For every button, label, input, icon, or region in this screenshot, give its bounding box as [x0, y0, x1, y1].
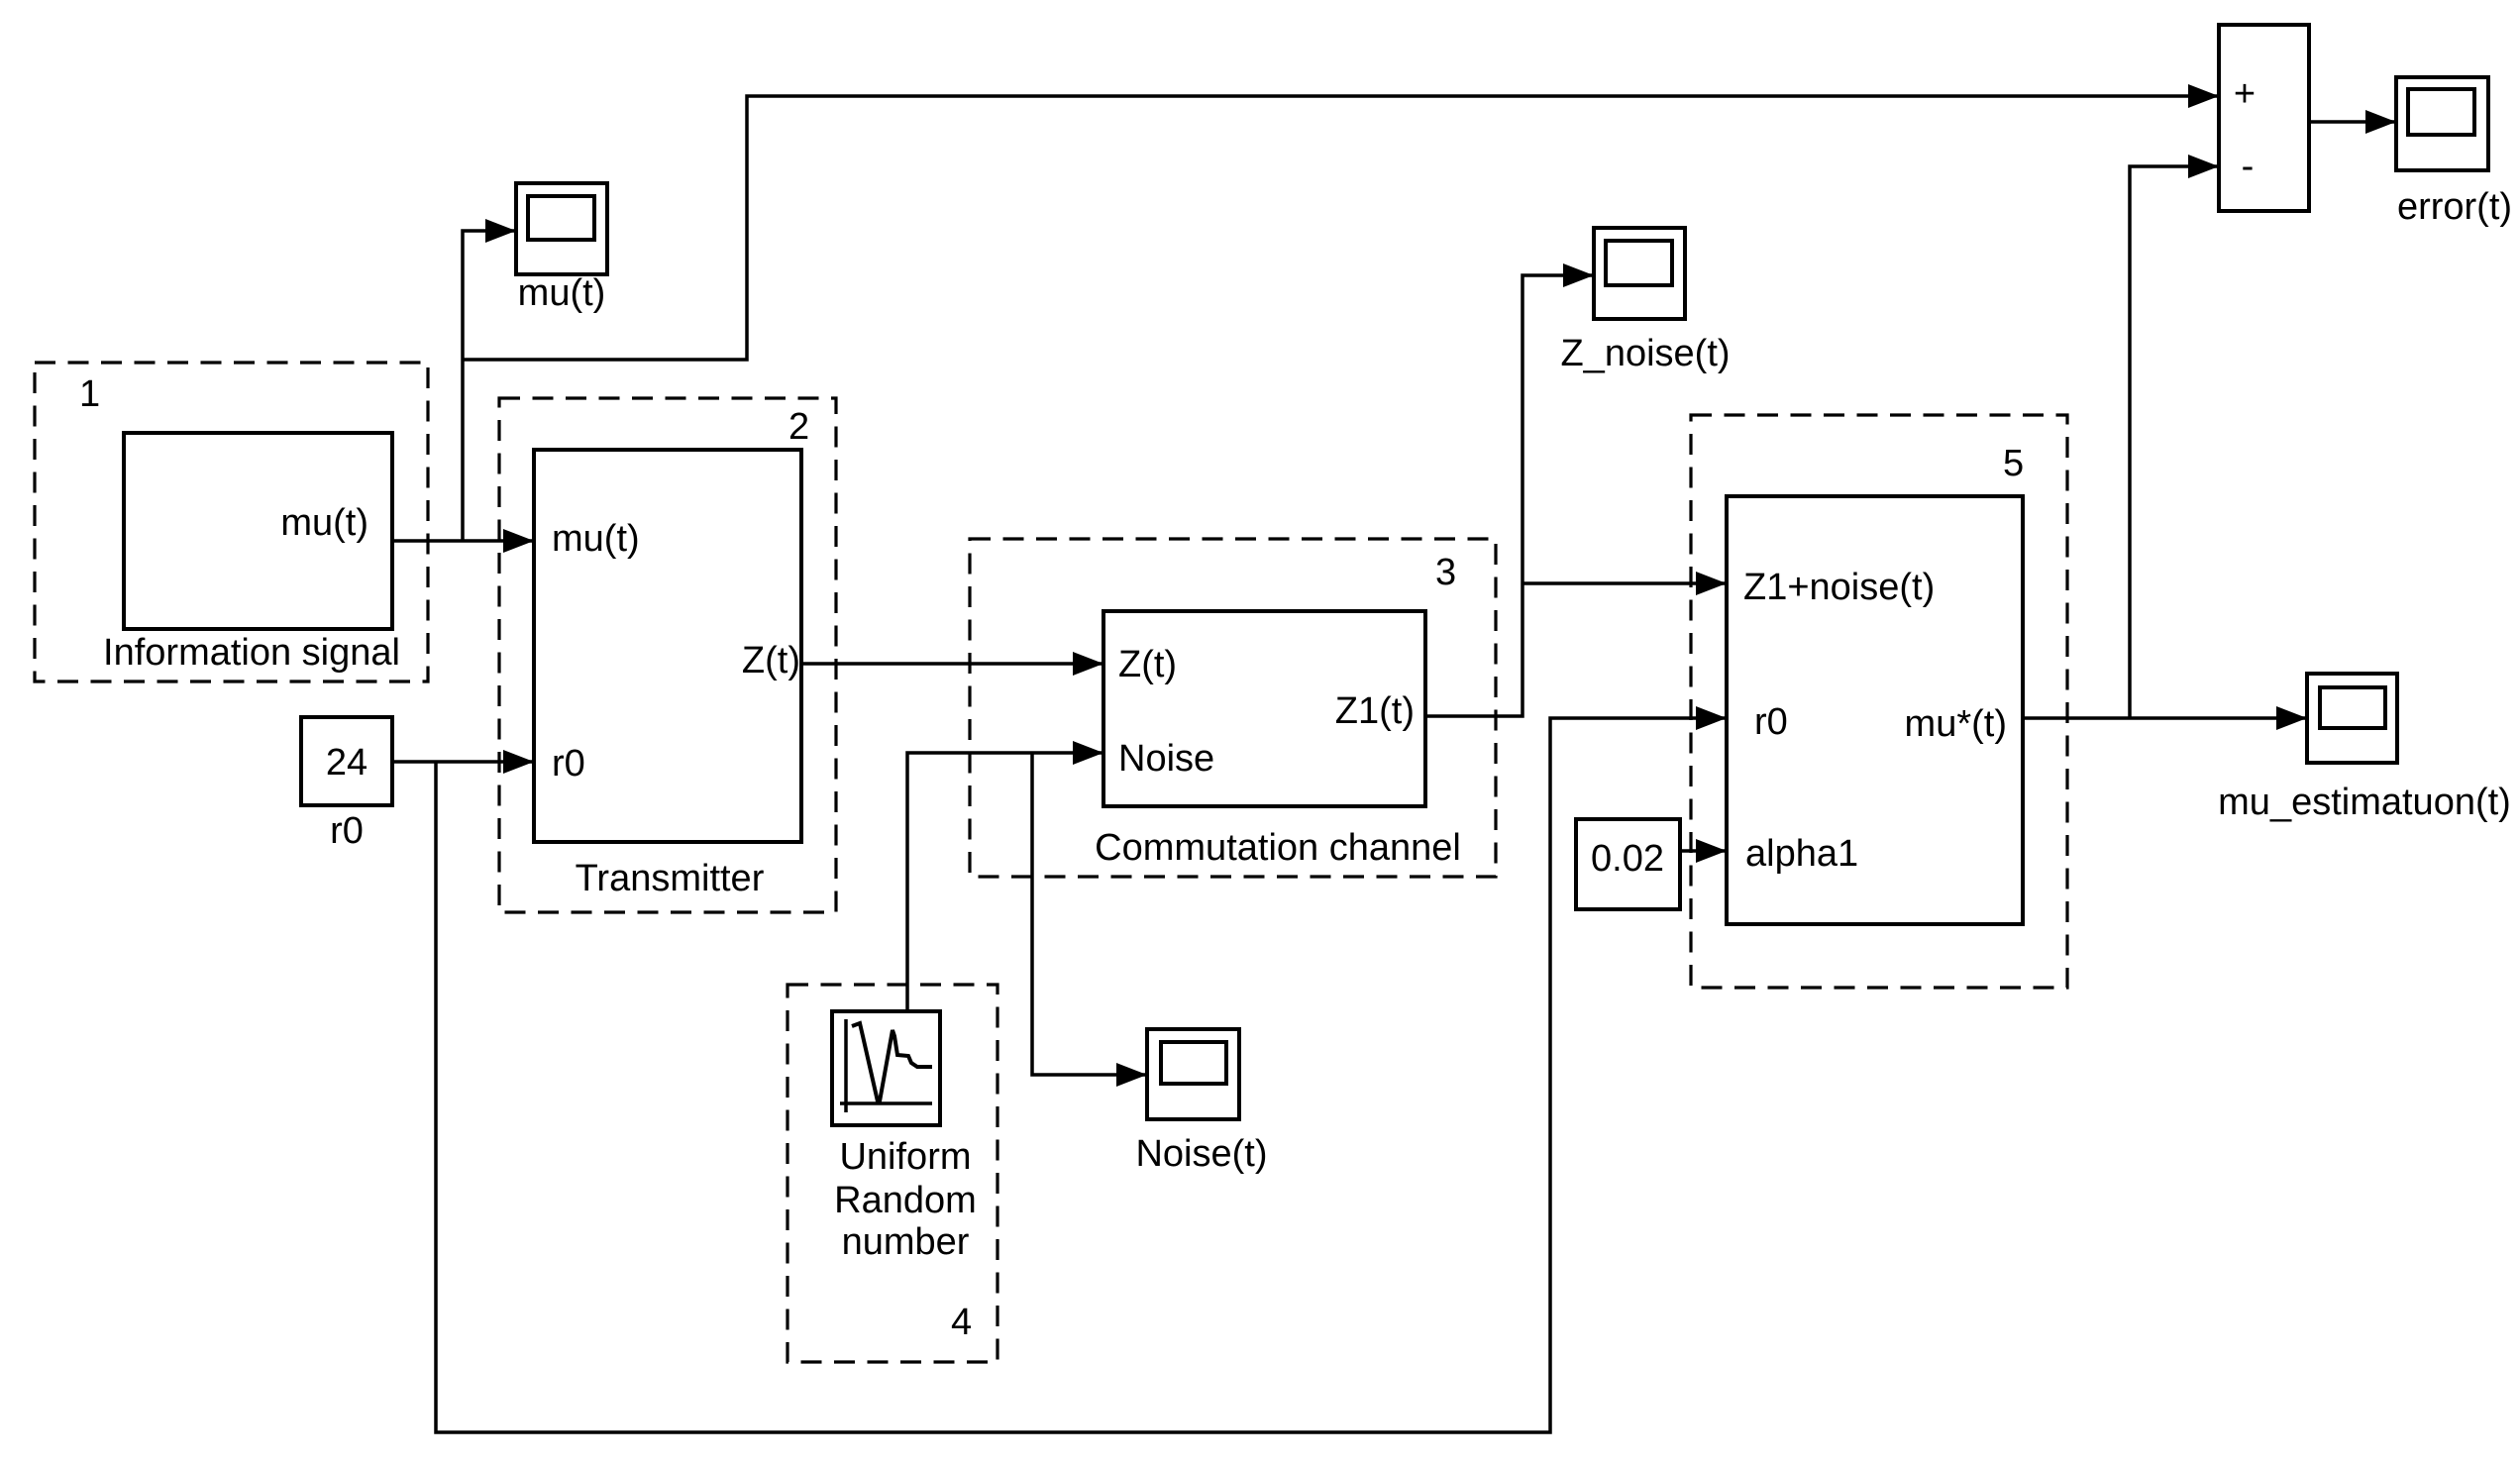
- svg-text:0.02: 0.02: [1591, 838, 1664, 880]
- svg-text:r0: r0: [1754, 701, 1788, 743]
- svg-text:24: 24: [326, 742, 367, 784]
- svg-text:r0: r0: [330, 810, 364, 852]
- svg-text:Commutation channel: Commutation channel: [1095, 827, 1461, 869]
- svg-text:number: number: [842, 1221, 970, 1263]
- svg-text:5: 5: [2003, 443, 2024, 484]
- svg-text:Z(t): Z(t): [1118, 644, 1177, 685]
- svg-text:mu(t): mu(t): [280, 502, 368, 544]
- svg-text:mu(t): mu(t): [518, 272, 606, 314]
- svg-text:Random: Random: [834, 1180, 977, 1221]
- svg-text:Z_noise(t): Z_noise(t): [1560, 333, 1730, 374]
- svg-text:+: +: [2234, 73, 2256, 115]
- svg-text:Z1+noise(t): Z1+noise(t): [1743, 567, 1935, 608]
- svg-text:mu_estimatuon(t): mu_estimatuon(t): [2218, 782, 2511, 823]
- svg-text:Noise(t): Noise(t): [1135, 1133, 1267, 1175]
- svg-text:Information signal: Information signal: [103, 632, 400, 674]
- svg-text:Z1(t): Z1(t): [1335, 690, 1415, 732]
- svg-text:1: 1: [79, 373, 100, 415]
- svg-text:Noise: Noise: [1118, 738, 1214, 780]
- svg-text:4: 4: [951, 1302, 972, 1343]
- svg-text:mu(t): mu(t): [552, 518, 640, 560]
- svg-text:r0: r0: [552, 743, 585, 785]
- svg-text:Uniform: Uniform: [839, 1136, 971, 1178]
- svg-text:Transmitter: Transmitter: [576, 858, 765, 899]
- svg-text:-: -: [2242, 146, 2255, 187]
- svg-text:Z(t): Z(t): [742, 640, 800, 681]
- svg-text:alpha1: alpha1: [1745, 833, 1858, 875]
- svg-text:mu*(t): mu*(t): [1905, 703, 2007, 745]
- svg-text:error(t): error(t): [2397, 186, 2512, 228]
- svg-text:3: 3: [1435, 552, 1456, 593]
- svg-text:2: 2: [788, 406, 809, 448]
